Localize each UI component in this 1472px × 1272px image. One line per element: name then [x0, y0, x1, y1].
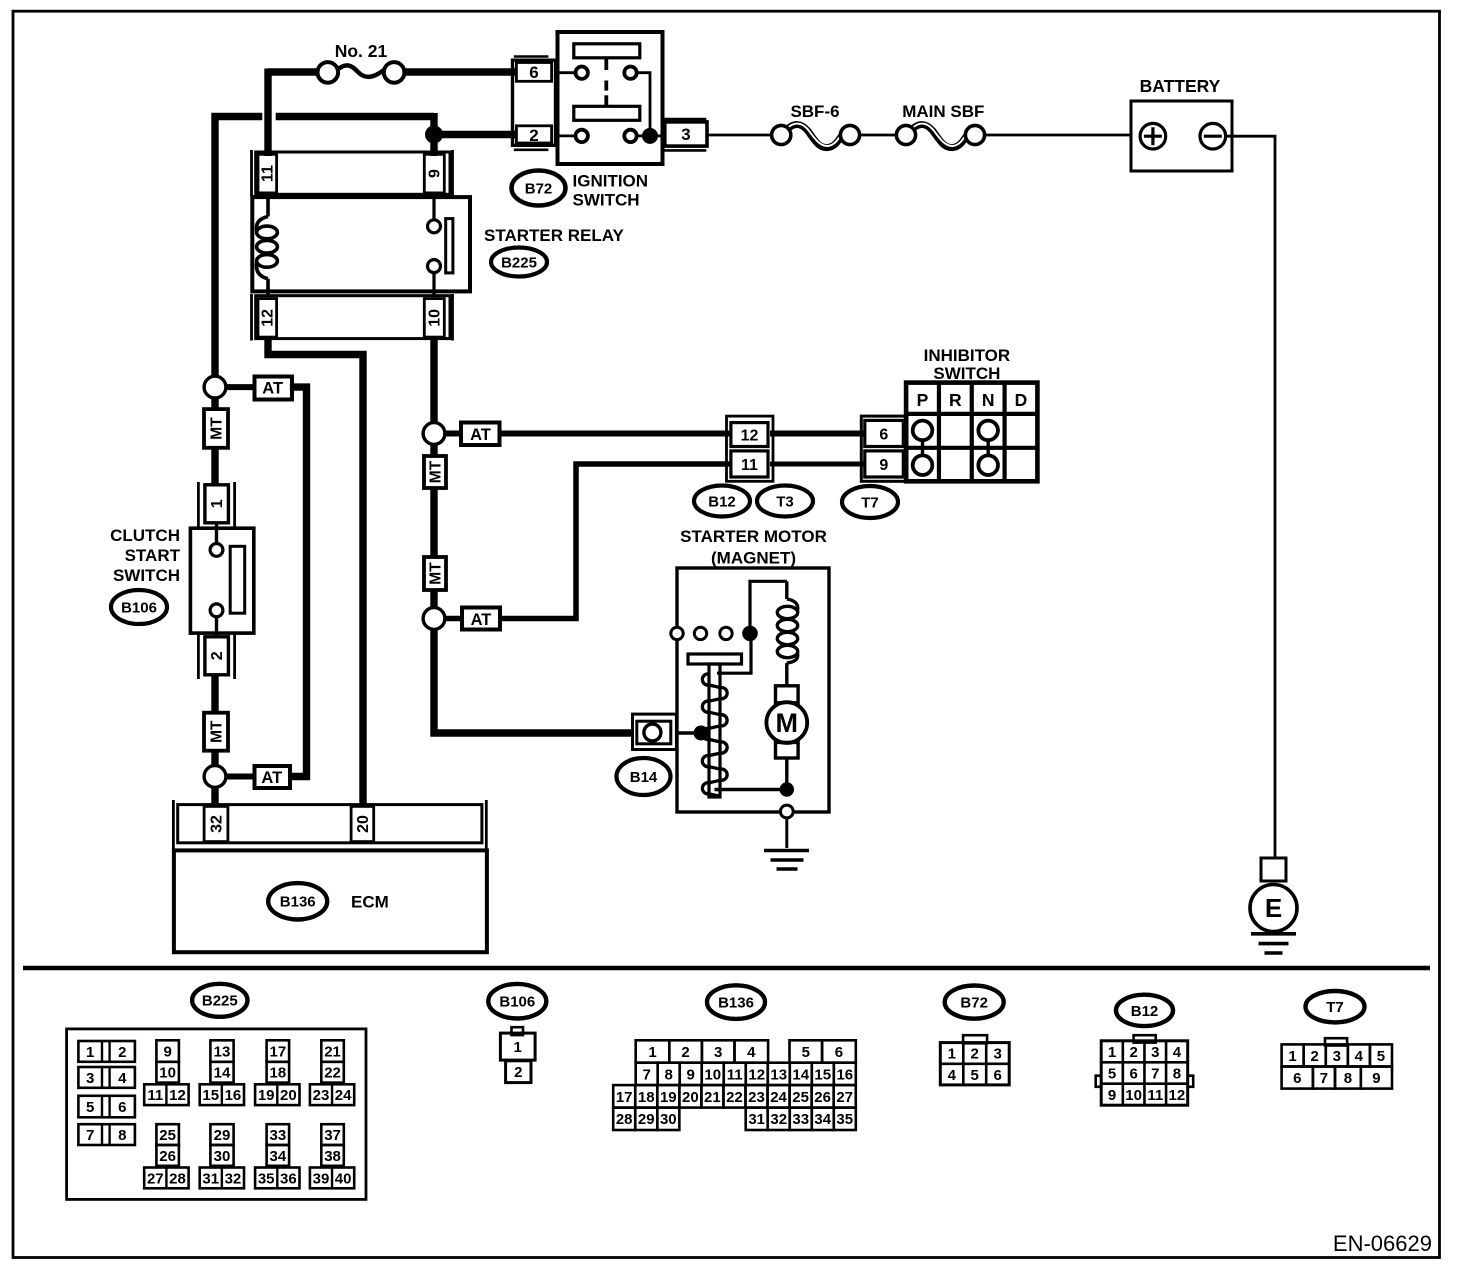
svg-text:1: 1 — [86, 1044, 94, 1061]
starter motor contacts — [671, 627, 683, 639]
svg-text:B225: B225 — [501, 254, 537, 271]
svg-text:1: 1 — [1108, 1044, 1116, 1061]
ECM B136 body — [174, 850, 487, 952]
wire: MAIN SBF to battery — [985, 134, 1132, 137]
ignition switch top contact bar — [574, 44, 640, 58]
ignition switch contact pin 6 lead — [558, 71, 577, 74]
svg-text:35: 35 — [836, 1111, 853, 1128]
svg-text:8: 8 — [1173, 1066, 1181, 1083]
connector B12/T3 pins 12/11 — [727, 416, 774, 481]
svg-text:32: 32 — [225, 1170, 242, 1187]
svg-text:12: 12 — [741, 428, 759, 445]
wire: AT node to starter motor B14 — [434, 629, 633, 733]
ground E (body earth) — [1261, 858, 1286, 881]
svg-text:9: 9 — [879, 457, 888, 474]
svg-text:E: E — [1265, 893, 1282, 923]
wire: relay pin 10 to AT node — [430, 337, 437, 424]
svg-text:AT: AT — [471, 611, 492, 629]
node: AT junction (clutch branch bottom) — [204, 766, 226, 788]
svg-text:1: 1 — [209, 499, 226, 508]
svg-text:AT: AT — [261, 769, 282, 787]
wire: B14 to solenoid — [676, 731, 701, 735]
svg-text:ECM: ECM — [351, 893, 389, 912]
svg-text:26: 26 — [814, 1089, 831, 1106]
svg-text:4: 4 — [118, 1070, 127, 1087]
svg-text:34: 34 — [814, 1111, 831, 1128]
label B72 (ignition switch) — [512, 171, 566, 206]
svg-text:8: 8 — [665, 1066, 673, 1083]
svg-text:STARTER MOTOR: STARTER MOTOR — [680, 527, 827, 546]
wire: AT bypass (clutch branch) — [288, 387, 306, 776]
svg-text:6: 6 — [879, 427, 888, 444]
svg-text:IGNITION: IGNITION — [573, 172, 649, 191]
connector B14 — [633, 714, 677, 749]
relay coil — [266, 193, 270, 217]
MT tag (relay branch upper) — [430, 444, 437, 456]
svg-text:5: 5 — [971, 1067, 979, 1084]
svg-text:6: 6 — [1129, 1066, 1137, 1083]
wire: pin 1 into switch — [215, 523, 218, 544]
svg-text:MAIN SBF: MAIN SBF — [902, 102, 984, 121]
svg-text:2: 2 — [1129, 1044, 1137, 1061]
svg-text:T7: T7 — [861, 494, 879, 511]
MT tag (clutch bottom) — [204, 713, 228, 751]
svg-text:SWITCH: SWITCH — [933, 364, 1000, 383]
svg-text:31: 31 — [202, 1170, 219, 1187]
svg-text:M: M — [776, 708, 799, 738]
svg-text:8: 8 — [118, 1127, 126, 1144]
wire: MT to clutch pin 1 — [211, 448, 218, 485]
svg-text:33: 33 — [270, 1127, 287, 1144]
connector pinout B225 — [192, 984, 247, 1017]
svg-text:36: 36 — [280, 1170, 297, 1187]
svg-text:BATTERY: BATTERY — [1140, 76, 1221, 96]
svg-text:11: 11 — [727, 1066, 743, 1083]
svg-text:B72: B72 — [525, 180, 553, 197]
relay contacts — [432, 197, 435, 220]
AT tag (starter branch) — [445, 616, 463, 622]
svg-text:15: 15 — [814, 1066, 831, 1083]
svg-text:6: 6 — [529, 63, 538, 82]
wire: relay pin 12 to ECM pin 20 — [268, 337, 363, 806]
connector T7 pins 6/9 — [861, 416, 907, 481]
svg-text:9: 9 — [1108, 1087, 1116, 1104]
wire: ignition output to pin 3 — [650, 134, 666, 137]
connector B106 pin 2 — [197, 634, 200, 679]
svg-text:N: N — [982, 390, 995, 410]
svg-text:17: 17 — [616, 1089, 633, 1106]
svg-text:3: 3 — [1151, 1044, 1159, 1061]
svg-text:35: 35 — [258, 1170, 275, 1187]
svg-text:27: 27 — [147, 1170, 164, 1187]
svg-text:MT: MT — [208, 720, 225, 743]
svg-text:13: 13 — [770, 1066, 787, 1083]
wire: battery negative to ground E — [1226, 136, 1275, 858]
svg-text:SBF-6: SBF-6 — [790, 102, 839, 121]
svg-text:20: 20 — [355, 815, 372, 833]
svg-text:6: 6 — [118, 1099, 126, 1116]
node: junction at relay pin 9 feed — [425, 126, 443, 144]
wire: ignition feed bus from node A to fuse and relay pin 11 — [268, 68, 322, 75]
svg-text:30: 30 — [660, 1111, 677, 1128]
wire: pin 2 to MT — [211, 675, 218, 713]
svg-text:AT: AT — [262, 380, 283, 398]
svg-text:32: 32 — [208, 815, 225, 833]
svg-text:2: 2 — [529, 126, 538, 145]
svg-text:9: 9 — [427, 169, 444, 178]
ignition switch contact pin 2 lead — [558, 134, 577, 137]
svg-text:7: 7 — [1320, 1070, 1328, 1087]
svg-text:11: 11 — [741, 457, 758, 474]
svg-text:23: 23 — [313, 1087, 330, 1104]
svg-text:25: 25 — [792, 1089, 809, 1106]
svg-text:6: 6 — [994, 1067, 1002, 1084]
svg-text:14: 14 — [792, 1066, 809, 1083]
wire: connector 12 to inhibitor 6 — [770, 431, 864, 437]
svg-text:4: 4 — [1173, 1044, 1182, 1061]
connector B225 pins 11/9 (relay top) — [250, 150, 253, 197]
svg-text:31: 31 — [748, 1111, 765, 1128]
svg-text:22: 22 — [726, 1089, 743, 1106]
svg-text:18: 18 — [638, 1089, 655, 1106]
svg-text:2: 2 — [681, 1044, 689, 1061]
label B14 — [617, 758, 671, 795]
wire: MT to AT node — [430, 590, 437, 608]
svg-text:5: 5 — [86, 1099, 94, 1116]
svg-text:B12: B12 — [708, 493, 736, 510]
svg-text:16: 16 — [225, 1087, 242, 1104]
svg-text:B136: B136 — [280, 894, 316, 911]
svg-text:B12: B12 — [1131, 1003, 1159, 1020]
svg-text:7: 7 — [1151, 1066, 1159, 1083]
svg-text:CLUTCH: CLUTCH — [110, 526, 180, 545]
connector B225 pins 12/10 (relay bottom) — [250, 294, 253, 341]
svg-text:1: 1 — [648, 1044, 656, 1061]
svg-text:No. 21: No. 21 — [335, 41, 388, 61]
svg-text:STARTER RELAY: STARTER RELAY — [484, 226, 624, 245]
svg-text:SWITCH: SWITCH — [113, 566, 180, 585]
MT tag (relay branch lower) — [424, 557, 446, 590]
wire: SBF-6 to MAIN SBF — [859, 134, 898, 137]
connector pinout B106 — [488, 984, 546, 1019]
svg-text:2: 2 — [118, 1044, 126, 1061]
svg-text:SWITCH: SWITCH — [573, 191, 640, 210]
svg-text:3: 3 — [86, 1070, 94, 1087]
connector pinout T7 — [1306, 991, 1365, 1022]
svg-text:3: 3 — [681, 125, 690, 144]
svg-text:24: 24 — [335, 1087, 352, 1104]
svg-text:INHIBITOR: INHIBITOR — [924, 346, 1011, 365]
svg-text:32: 32 — [770, 1111, 787, 1128]
svg-text:6: 6 — [1293, 1070, 1301, 1087]
connector pinout B12 — [1116, 995, 1173, 1026]
svg-text:B106: B106 — [121, 599, 157, 616]
svg-text:21: 21 — [704, 1089, 721, 1106]
node: AT junction (relay 10 branch) — [423, 423, 445, 445]
MT tag (clutch top) — [211, 398, 218, 409]
svg-text:12: 12 — [748, 1066, 765, 1083]
svg-text:EN-06629: EN-06629 — [1333, 1231, 1432, 1256]
starter motor case ground — [780, 805, 793, 818]
svg-text:7: 7 — [86, 1127, 94, 1144]
wire: motor to ground node — [785, 758, 788, 790]
label B136 / ECM — [268, 883, 327, 919]
node: solenoid spring tap — [694, 726, 709, 741]
svg-text:MT: MT — [427, 460, 444, 483]
svg-text:(MAGNET): (MAGNET) — [711, 549, 796, 568]
svg-text:2: 2 — [209, 651, 226, 660]
svg-text:2: 2 — [514, 1064, 522, 1081]
svg-text:4: 4 — [747, 1044, 756, 1061]
svg-text:3: 3 — [1333, 1048, 1341, 1065]
svg-text:5: 5 — [1377, 1048, 1385, 1065]
wire: AT to connector 11 — [499, 464, 731, 619]
svg-text:19: 19 — [660, 1089, 677, 1106]
svg-text:20: 20 — [682, 1089, 699, 1106]
svg-text:17: 17 — [270, 1043, 287, 1060]
svg-text:P: P — [917, 390, 929, 410]
AT tag (inhibitor branch) — [445, 431, 462, 437]
svg-text:10: 10 — [427, 309, 444, 327]
svg-text:6: 6 — [835, 1044, 843, 1061]
svg-text:B72: B72 — [960, 995, 988, 1012]
node: AT junction (starter branch) — [423, 608, 445, 630]
connector B106 pin 1 — [197, 482, 200, 527]
AT tag (clutch top) — [226, 384, 256, 390]
svg-text:10: 10 — [159, 1065, 176, 1082]
svg-text:9: 9 — [687, 1066, 695, 1083]
node: motor ground junction — [780, 782, 794, 796]
svg-text:12: 12 — [1169, 1087, 1186, 1104]
connector B72 pins 6/2 (ignition switch) — [514, 55, 549, 58]
svg-text:9: 9 — [163, 1043, 171, 1060]
svg-text:7: 7 — [643, 1066, 651, 1083]
svg-text:T3: T3 — [776, 493, 794, 510]
starter motor internal feed — [750, 581, 787, 633]
svg-text:28: 28 — [169, 1170, 186, 1187]
svg-text:16: 16 — [836, 1066, 853, 1083]
ignition switch right link to output — [637, 73, 651, 136]
svg-text:4: 4 — [1355, 1048, 1364, 1065]
wire: solenoid contact to plunger — [717, 633, 751, 673]
svg-text:10: 10 — [1125, 1087, 1142, 1104]
wire: MT to MT — [430, 488, 437, 557]
svg-text:1: 1 — [1288, 1048, 1296, 1065]
AT tag (clutch bottom) — [226, 774, 256, 780]
wire: MT to AT node (clutch bottom) — [211, 751, 218, 766]
svg-text:5: 5 — [1108, 1066, 1116, 1083]
svg-text:24: 24 — [770, 1089, 787, 1106]
ignition switch actuator dashed link — [604, 58, 608, 70]
svg-text:4: 4 — [948, 1067, 957, 1084]
svg-text:3: 3 — [714, 1044, 722, 1061]
svg-text:MT: MT — [208, 417, 225, 440]
connector pin 3 (ignition switch output) — [663, 118, 706, 121]
svg-text:D: D — [1015, 390, 1028, 410]
svg-text:20: 20 — [280, 1087, 297, 1104]
starter motor field coil — [785, 581, 788, 599]
svg-text:12: 12 — [260, 309, 277, 327]
svg-text:29: 29 — [214, 1127, 231, 1144]
svg-text:38: 38 — [324, 1148, 341, 1165]
svg-text:11: 11 — [260, 165, 277, 182]
svg-text:30: 30 — [214, 1148, 231, 1165]
svg-text:39: 39 — [313, 1170, 330, 1187]
node: ignition switch output junction — [642, 128, 658, 144]
solenoid plunger — [688, 654, 742, 664]
solenoid spring — [702, 674, 709, 685]
wire: fuse No.21 output to ignition switch pin 6 — [399, 68, 516, 75]
svg-text:10: 10 — [704, 1066, 721, 1083]
svg-text:21: 21 — [324, 1043, 341, 1060]
node: AT junction (clutch branch top) — [204, 376, 226, 398]
connector B136 pins 32/20 (ECM) — [172, 800, 175, 849]
ignition switch B72 body — [558, 32, 663, 164]
svg-text:R: R — [949, 390, 962, 410]
wire: ignition pin 3 to SBF-6 — [706, 134, 772, 137]
node: solenoid contact junction — [742, 626, 758, 642]
svg-text:B106: B106 — [499, 994, 535, 1011]
wire: bus from clutch branch to starter relay pin 9 / ignition pin 2 — [215, 117, 262, 378]
svg-text:27: 27 — [836, 1089, 853, 1106]
wire: AT to connector 12 — [499, 431, 731, 437]
wire: connector 11 to inhibitor 9 — [770, 462, 864, 467]
connector pinout B72 — [945, 986, 1004, 1019]
svg-text:START: START — [125, 546, 181, 565]
svg-text:34: 34 — [270, 1148, 287, 1165]
connector pinout B136 — [707, 985, 765, 1019]
svg-text:26: 26 — [159, 1148, 176, 1165]
svg-text:15: 15 — [202, 1087, 219, 1104]
svg-text:22: 22 — [324, 1065, 341, 1082]
svg-text:9: 9 — [1372, 1070, 1380, 1087]
wire: AT node to ECM pin 32 — [211, 787, 218, 806]
svg-text:MT: MT — [427, 562, 444, 585]
svg-text:B225: B225 — [202, 993, 238, 1010]
starter relay B225 body — [252, 197, 470, 291]
svg-text:B14: B14 — [630, 769, 658, 786]
svg-text:29: 29 — [638, 1111, 655, 1128]
label B12 / T3 — [694, 486, 750, 517]
svg-text:40: 40 — [335, 1170, 352, 1187]
svg-text:11: 11 — [147, 1087, 163, 1104]
starter motor body — [677, 568, 829, 812]
clutch switch contacts — [210, 544, 223, 557]
svg-text:3: 3 — [994, 1046, 1002, 1063]
svg-text:19: 19 — [258, 1087, 275, 1104]
svg-text:2: 2 — [971, 1046, 979, 1063]
clutch start switch B106 body — [190, 528, 253, 633]
svg-text:18: 18 — [270, 1065, 287, 1082]
svg-text:B136: B136 — [718, 995, 754, 1012]
svg-text:AT: AT — [470, 426, 491, 444]
svg-text:33: 33 — [792, 1111, 809, 1128]
svg-text:1: 1 — [948, 1046, 956, 1063]
svg-text:14: 14 — [214, 1065, 231, 1082]
svg-text:1: 1 — [514, 1039, 522, 1056]
svg-text:23: 23 — [748, 1089, 765, 1106]
label T7 — [842, 486, 898, 518]
svg-text:T7: T7 — [1326, 999, 1344, 1016]
ignition switch contacts — [576, 67, 588, 79]
svg-text:37: 37 — [324, 1127, 341, 1144]
svg-text:5: 5 — [802, 1044, 810, 1061]
ignition switch bottom contact bar — [574, 106, 640, 120]
svg-text:12: 12 — [169, 1087, 186, 1104]
svg-text:13: 13 — [214, 1043, 231, 1060]
wire: junction down to relay pin 9 — [430, 135, 437, 157]
svg-text:8: 8 — [1344, 1070, 1352, 1087]
svg-text:25: 25 — [159, 1127, 176, 1144]
svg-text:2: 2 — [1311, 1048, 1319, 1065]
svg-text:11: 11 — [1147, 1087, 1163, 1104]
svg-text:28: 28 — [616, 1111, 633, 1128]
motor M — [776, 686, 799, 703]
